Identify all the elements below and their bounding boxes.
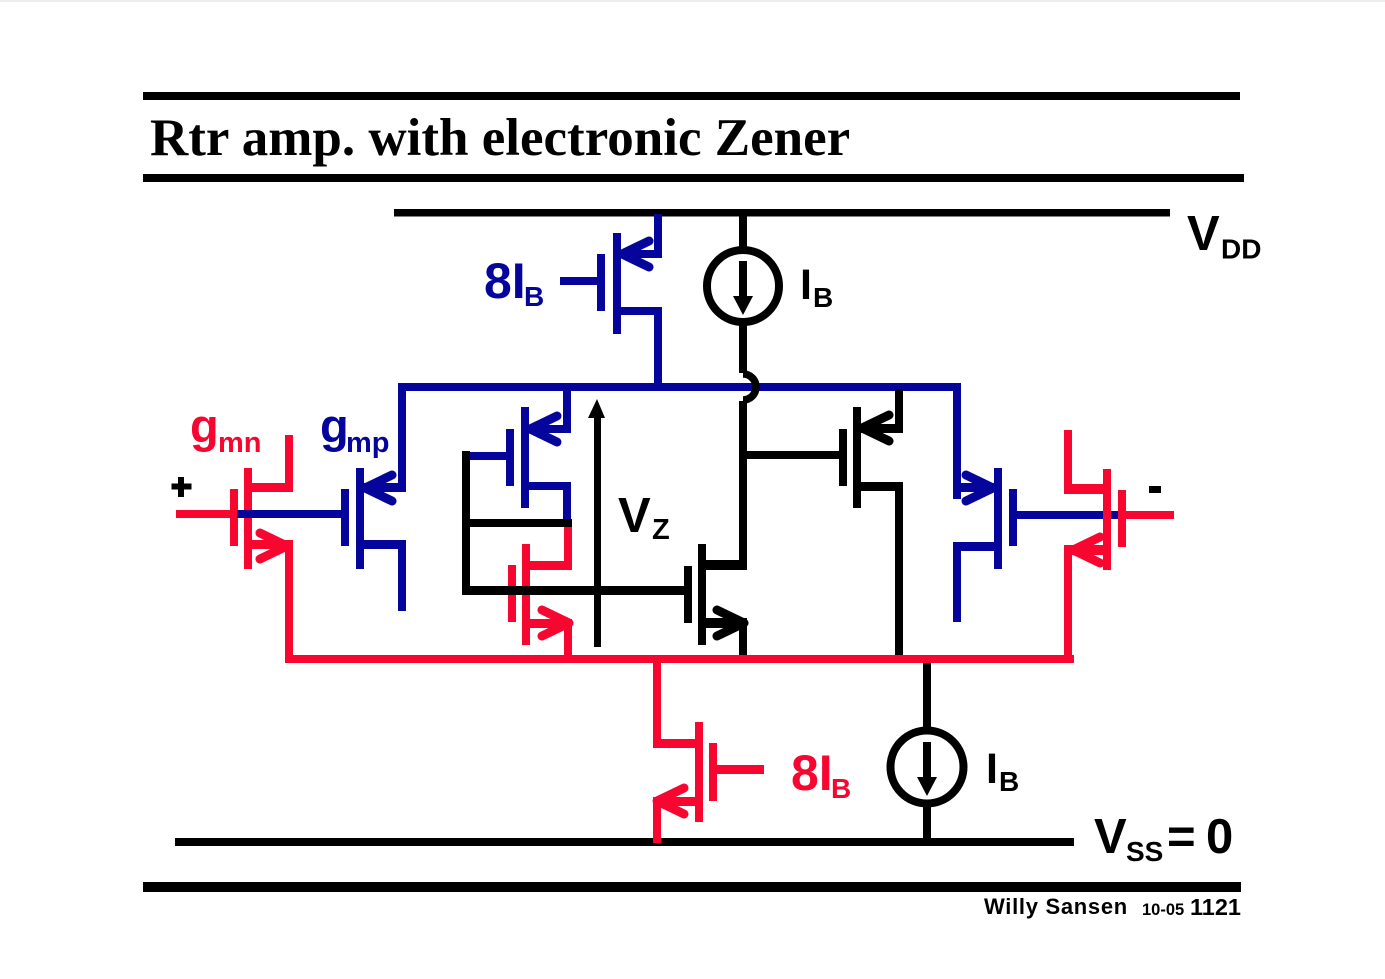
transistor M9 (red right NMOS mirrored) (1064, 430, 1174, 663)
svg-text:8I: 8I (791, 745, 833, 801)
svg-text:g: g (190, 399, 219, 452)
svg-text:Willy Sansen: Willy Sansen (984, 894, 1128, 919)
svg-text:SS: SS (1126, 836, 1163, 867)
wire blue bus right corner down (953, 383, 961, 499)
label VZ (618, 489, 670, 546)
svg-text:mp: mp (346, 427, 390, 459)
label + input (172, 477, 192, 497)
transistor M8 (blue right PMOS mirrored) (953, 468, 1122, 622)
svg-text:g: g (320, 399, 349, 452)
label IB top (800, 261, 833, 313)
transistor M5 (red zener NMOS) (508, 525, 572, 663)
svg-text:B: B (813, 282, 833, 313)
node VZ arrow (594, 415, 601, 647)
label IB bottom (986, 745, 1019, 797)
transistor M7 (black zener PMOS) (839, 389, 903, 663)
title bottom rule (143, 174, 1244, 182)
credit Willy Sansen 10-05 1121 (984, 894, 1241, 920)
svg-text:0: 0 (1206, 810, 1233, 864)
svg-text:B: B (999, 766, 1019, 797)
transistor M4 (blue zener PMOS) (465, 389, 571, 527)
wire black vertical below hop (739, 401, 747, 570)
svg-text:8I: 8I (484, 253, 526, 309)
label 8IB (blue) (484, 253, 544, 312)
transistor M3 (blue gmp PMOS) (237, 387, 406, 611)
label VSS = 0 (1094, 810, 1233, 867)
svg-text:mn: mn (218, 427, 262, 459)
black gate frame of zener (462, 451, 684, 595)
wire hop over blue bus (743, 374, 756, 400)
title top rule (143, 92, 1240, 100)
svg-text:Rtr amp. with electronic Zener: Rtr amp. with electronic Zener (150, 109, 850, 167)
label gmp (blue) (320, 399, 390, 459)
wire branch to M7 gate (747, 451, 839, 459)
transistor M10 (red 8IB bottom NMOS mirrored) (653, 661, 764, 843)
svg-text:=: = (1167, 810, 1196, 864)
blue bus node n1 (398, 383, 961, 391)
label VDD (1187, 207, 1261, 265)
bottom border rule (143, 882, 1241, 892)
VDD rail (394, 209, 1170, 217)
label gmn (red) (190, 399, 262, 459)
red bus node n2 (285, 655, 1074, 663)
svg-text:10-05: 10-05 (1142, 901, 1184, 919)
transistor M2 (red gmn input NMOS) (176, 435, 293, 663)
svg-text:I: I (800, 261, 812, 309)
svg-text:V: V (618, 489, 651, 543)
transistor M1 (blue 8IB top PMOS) (560, 214, 662, 391)
transistor M6 (black zener NMOS) (684, 544, 747, 663)
svg-text:V: V (1094, 810, 1127, 864)
svg-text:B: B (524, 281, 544, 312)
svg-text:B: B (831, 773, 851, 804)
svg-text:V: V (1187, 207, 1220, 261)
VSS rail (175, 838, 1074, 846)
svg-text:DD: DD (1221, 234, 1261, 265)
current source IB top (707, 216, 779, 373)
svg-text:1121: 1121 (1190, 894, 1241, 920)
label - input (1149, 486, 1161, 493)
svg-text:I: I (986, 745, 998, 793)
svg-text:Z: Z (652, 514, 670, 546)
current source IB bottom (891, 663, 964, 838)
label 8IB (red) (791, 745, 851, 804)
